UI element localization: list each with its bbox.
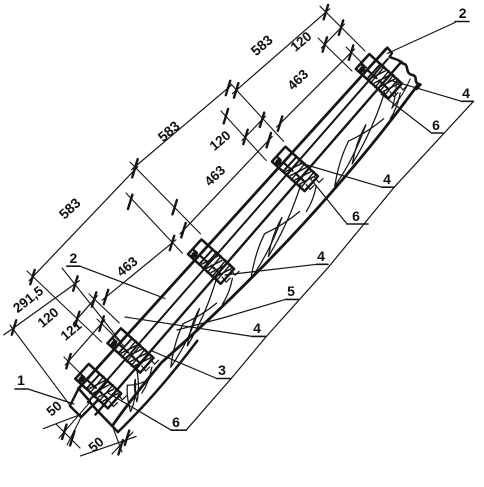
dimension 120 bay1 (35, 292, 98, 330)
dimension 583 bay2 (128, 81, 232, 209)
callout 4 third (225, 248, 328, 275)
svg-text:4: 4 (383, 171, 391, 187)
svg-text:4: 4 (253, 320, 261, 336)
extension line 291,5 right (62, 268, 120, 341)
dimension 463 bay2 (173, 133, 273, 237)
callout 2 left (67, 250, 165, 299)
cleat 3 (188, 239, 239, 283)
svg-text:6: 6 (432, 117, 440, 133)
cleat 2 (108, 328, 159, 372)
svg-text:1: 1 (17, 372, 25, 388)
extension line c3 left (126, 193, 182, 253)
svg-text:2: 2 (70, 250, 78, 266)
extension line 291,5 left (10, 325, 69, 404)
callout 6 first (381, 94, 443, 133)
extension line c5 left (318, 38, 352, 71)
svg-text:4: 4 (317, 248, 325, 264)
callout 5 (177, 283, 298, 330)
dimension 463 bay3 (277, 45, 355, 130)
board 2 near edge (96, 62, 402, 415)
extension line c4 right (231, 84, 284, 141)
wood grain at top end (392, 79, 410, 108)
svg-text:3: 3 (218, 362, 226, 378)
callout 6 second (310, 178, 369, 225)
dimension 463 bay1 (102, 236, 176, 304)
svg-text:2: 2 (459, 5, 467, 21)
break wave at top end (403, 64, 421, 90)
wood grain bay2 (251, 185, 316, 279)
under board far edge at joint (118, 341, 197, 432)
callout 4 fourth (125, 317, 266, 336)
dimension 583 bay1 (29, 163, 138, 284)
svg-text:4: 4 (462, 85, 470, 101)
dimension 50 second (81, 431, 137, 456)
board 1 top end cut (387, 48, 403, 64)
cleat 4 (272, 147, 323, 191)
callout 4 second (300, 163, 394, 187)
cleat 5 (356, 54, 407, 98)
callout 3 (151, 350, 232, 378)
under board bottom end (70, 389, 98, 418)
extension line c2 left (27, 271, 102, 342)
extension line 121 right (97, 319, 125, 347)
wood grain bay1 (171, 278, 233, 368)
dimension 120 bay2 (207, 113, 266, 154)
board 2 bottom end cut (90, 402, 118, 432)
extension line c4 left (221, 111, 266, 161)
dimension 121 (58, 316, 105, 368)
board 1 near edge (79, 49, 386, 389)
extension line c3 right (130, 162, 201, 234)
extension line c2 right (89, 294, 119, 323)
board 1 bottom end cut (79, 389, 90, 402)
board 2 far edge (112, 86, 417, 426)
board 1 face line (88, 59, 388, 402)
wood grain bay3 (335, 92, 400, 186)
dimension 50 first (43, 398, 80, 448)
callout 2 top (387, 5, 469, 54)
extension line 50 b (67, 417, 81, 445)
extension line 463 bay3 right (346, 47, 367, 68)
svg-text:6: 6 (172, 414, 180, 430)
callout 4 first (391, 80, 474, 101)
callout 6 third (108, 393, 186, 430)
callout collector line (186, 101, 473, 430)
dimension 291,5 (4, 276, 80, 335)
wood grain at bottom joint (127, 367, 152, 412)
callout 1 (15, 372, 74, 404)
extension line 50 c (112, 426, 122, 452)
cleat 1 (75, 364, 126, 408)
extension line c5 right (320, 6, 365, 51)
extension line 50 a (59, 402, 90, 438)
svg-text:5: 5 (287, 283, 295, 299)
svg-text:6: 6 (352, 208, 360, 224)
dimension 120 bay3 (288, 20, 345, 54)
extension line c1 right (64, 357, 95, 388)
dimension 583 bay3 (224, 5, 330, 124)
